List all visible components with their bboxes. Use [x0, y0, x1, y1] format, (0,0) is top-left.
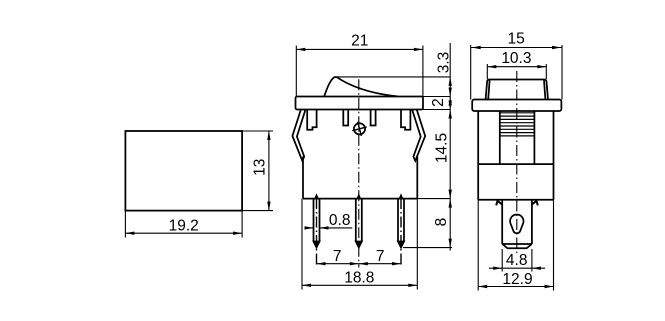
svg-text:3.3: 3.3 [436, 52, 453, 74]
svg-text:15: 15 [507, 30, 524, 47]
svg-text:10.3: 10.3 [501, 50, 531, 67]
svg-text:2: 2 [430, 98, 447, 107]
svg-text:7: 7 [376, 248, 385, 265]
svg-text:14.5: 14.5 [434, 133, 451, 163]
svg-text:0.8: 0.8 [329, 212, 351, 229]
svg-text:4.8: 4.8 [506, 252, 528, 269]
svg-text:12.9: 12.9 [502, 271, 532, 288]
svg-text:7: 7 [333, 248, 342, 265]
svg-text:13: 13 [252, 159, 269, 176]
svg-text:8: 8 [433, 218, 450, 227]
svg-text:18.8: 18.8 [344, 270, 374, 287]
svg-text:21: 21 [351, 32, 368, 49]
svg-text:19.2: 19.2 [169, 218, 199, 235]
